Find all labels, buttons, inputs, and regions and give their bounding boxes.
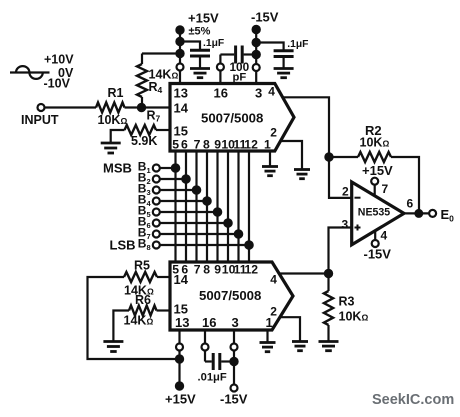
svg-text:R6: R6 <box>135 293 151 307</box>
terminal B8 bit input <box>138 237 253 253</box>
resistor R4 14K ohm <box>137 54 178 108</box>
input terminal INPUT <box>21 104 59 127</box>
svg-text:7: 7 <box>194 138 201 152</box>
wire node to op-amp + input <box>329 228 352 274</box>
bus wire bit 2 (pins 5-12) <box>185 151 187 262</box>
terminal B6 bit input <box>138 215 232 231</box>
svg-text:NE535: NE535 <box>358 207 390 219</box>
IC U2 5007/5008 (bottom DAC) <box>170 262 293 330</box>
svg-text:+10V: +10V <box>44 53 74 67</box>
svg-text:.1μF: .1μF <box>203 38 224 49</box>
wire R7 left to ground <box>111 130 125 142</box>
op-amp U3 NE535 <box>342 182 405 245</box>
resistor R7 5.9K <box>125 109 161 149</box>
svg-text:10KΩ: 10KΩ <box>360 136 390 150</box>
svg-text:pF: pF <box>233 72 247 84</box>
op-amp pin 7 +15V <box>362 163 393 196</box>
svg-text:+15V: +15V <box>188 11 219 26</box>
svg-text:+15V: +15V <box>362 163 393 178</box>
resistor R2 10K ohm feedback <box>329 123 419 213</box>
wire R6 to U2 pin 15 <box>157 309 171 311</box>
svg-text:6: 6 <box>407 197 414 211</box>
ground U2 pin 1 <box>260 343 276 352</box>
svg-text:13: 13 <box>175 315 189 330</box>
ground for R6 <box>103 342 123 352</box>
svg-text:14: 14 <box>174 272 189 287</box>
wire U2 pin 1 to ground <box>266 330 268 342</box>
wire U1 pin 2 to ground <box>280 141 302 169</box>
svg-text:R1: R1 <box>108 86 124 100</box>
svg-text:14KΩ: 14KΩ <box>124 314 154 328</box>
svg-text:9: 9 <box>214 263 221 277</box>
svg-text:9: 9 <box>214 138 221 152</box>
svg-text:+15V: +15V <box>165 392 196 407</box>
wire R6 left to ground <box>113 311 129 342</box>
terminal B7 bit input <box>138 226 242 242</box>
terminal B3 bit input <box>138 182 200 198</box>
ground U1 pin 1 <box>262 167 278 176</box>
svg-text:1: 1 <box>266 315 273 330</box>
svg-text:12: 12 <box>245 263 259 277</box>
ground for R7 <box>101 143 121 153</box>
svg-text:16: 16 <box>214 86 228 101</box>
ground for C1 <box>190 69 210 78</box>
svg-text:6: 6 <box>181 138 188 152</box>
bus wire bit 8 (pins 5-12) <box>248 151 250 262</box>
output terminal E0 <box>404 197 454 224</box>
svg-text:.1μF: .1μF <box>287 39 308 50</box>
svg-text:-15V: -15V <box>220 392 248 407</box>
svg-text:±5%: ±5% <box>189 26 211 38</box>
node junction U2 out / R3 / op-amp + <box>325 270 332 277</box>
ground for R3 <box>319 342 339 351</box>
svg-text:2: 2 <box>270 126 277 140</box>
svg-text:3: 3 <box>255 86 262 101</box>
svg-text:2: 2 <box>342 185 349 199</box>
svg-text:8: 8 <box>203 138 210 152</box>
U2 pin 3 stub to -15V <box>220 330 248 407</box>
svg-text:16: 16 <box>202 315 216 330</box>
svg-text:1: 1 <box>264 138 271 152</box>
IC U1 5007/5008 (top DAC) <box>170 84 294 152</box>
wire R5 to U2 pin 14 <box>157 276 170 278</box>
terminal B5 bit input <box>138 204 221 220</box>
svg-text:3: 3 <box>232 315 239 330</box>
wire input to R1 <box>45 106 97 108</box>
svg-text:5007/5008: 5007/5008 <box>199 288 261 303</box>
resistor R1 10K ohm <box>96 86 127 127</box>
bus wire bit 4 (pins 5-12) <box>206 151 208 262</box>
svg-text:4: 4 <box>381 229 388 243</box>
resistor R6 14K ohm <box>124 293 157 328</box>
capacitor C2 .1uF <box>256 39 308 68</box>
capacitor C4 .01uF (U2 pin 16) <box>198 330 235 384</box>
wire R7 to U1 pin 15 <box>156 129 170 131</box>
bus wire bit 7 (pins 5-12) <box>237 151 239 262</box>
svg-text:INPUT: INPUT <box>21 113 59 127</box>
resistor R3 10K ohm <box>324 274 369 342</box>
svg-text:4: 4 <box>268 85 275 99</box>
svg-text:7: 7 <box>382 182 389 196</box>
svg-text:-10V: -10V <box>44 77 71 91</box>
svg-text:R3: R3 <box>339 295 355 309</box>
wire U1 pin 4 output <box>283 97 352 198</box>
bus wire bit 6 (pins 5-12) <box>227 151 229 262</box>
U2 pin 13 stub to +15V <box>165 330 196 407</box>
svg-text:5: 5 <box>172 138 179 152</box>
svg-text:SeekIC.com: SeekIC.com <box>372 392 454 408</box>
ground U2 pin 2 <box>292 342 308 351</box>
wire R1 to U1 pin 14 <box>125 106 171 108</box>
svg-text:R5: R5 <box>134 259 150 273</box>
resistor R5 14K ohm <box>124 259 157 298</box>
ground for C2 <box>274 69 294 78</box>
bus wire bit 5 (pins 5-12) <box>216 151 218 262</box>
wire U2 pin 2 to ground <box>280 317 300 341</box>
svg-text:-15V: -15V <box>364 247 392 262</box>
svg-text:10KΩ: 10KΩ <box>339 310 369 324</box>
source waveform symbol with voltage levels <box>10 53 74 91</box>
+15V supply rail (U1 pin 13) <box>176 11 219 84</box>
bus wire bit 3 (pins 5-12) <box>195 151 197 262</box>
svg-text:13: 13 <box>174 86 188 101</box>
svg-text:5.9K: 5.9K <box>131 134 157 148</box>
svg-text:12: 12 <box>244 138 258 152</box>
ground U1 pin 2 <box>294 170 310 179</box>
bus wire bit 1 (pins 5-12) <box>174 151 176 262</box>
node junction U1 out / R2 / op-amp - <box>325 153 332 160</box>
svg-text:.01μF: .01μF <box>198 372 227 384</box>
node junction R1/R4/pin14 <box>138 104 145 111</box>
svg-text:14: 14 <box>174 101 189 116</box>
svg-text:15: 15 <box>174 124 188 139</box>
svg-text:-15V: -15V <box>251 10 279 25</box>
svg-text:10KΩ: 10KΩ <box>98 113 128 127</box>
svg-text:MSB: MSB <box>103 161 132 176</box>
wire R4 top to +15V rail <box>142 52 180 54</box>
wire U1 pin 1 to ground <box>269 151 271 166</box>
-15V supply rail (U1 pin 3) <box>251 10 279 84</box>
svg-text:4: 4 <box>270 273 277 287</box>
terminal B4 bit input <box>138 193 211 209</box>
svg-text:5007/5008: 5007/5008 <box>201 111 263 126</box>
wire U2 pin 4 output <box>279 272 328 274</box>
terminal B2 bit input <box>138 171 190 187</box>
svg-text:3: 3 <box>342 218 349 232</box>
svg-text:8: 8 <box>203 263 210 277</box>
capacitor C3 100pF (U1 pin 16) <box>217 46 256 84</box>
capacitor C1 .1uF <box>180 38 224 68</box>
wire R5 left rail to +15V node <box>88 277 180 359</box>
op-amp pin 4 -15V <box>364 229 392 262</box>
terminal B1 bit input <box>138 160 179 176</box>
svg-text:LSB: LSB <box>110 238 136 253</box>
svg-text:7: 7 <box>194 263 201 277</box>
